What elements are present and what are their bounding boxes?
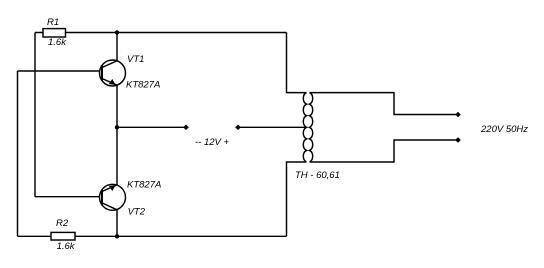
svg-text:R1: R1 — [47, 17, 59, 28]
wire: 12V feed from right terminal to transformer center tap — [238, 126, 307, 128]
wire: primary bottom lead (corner up from bottom rail) — [287, 162, 307, 236]
svg-text:VT2: VT2 — [128, 207, 146, 218]
terminal (diamond) 12V right — [235, 125, 241, 131]
transformer TH secondary winding (right) — [309, 93, 312, 162]
junction dot at bottom rail — [115, 234, 119, 238]
terminal (diamond) 220V bottom — [455, 137, 461, 143]
svg-text:VT1: VT1 — [127, 54, 144, 65]
resistor R2 — [51, 218, 76, 252]
svg-text:1.6k: 1.6k — [57, 241, 76, 252]
resistor R1 — [43, 17, 67, 48]
wire: left vertical from VT1 base down to bottom rail — [17, 71, 19, 236]
transistor VT2 (KT827A, NPN) — [100, 180, 162, 218]
svg-text:R2: R2 — [56, 218, 69, 229]
wire: top rail (+12V) from R1 to transformer corner — [35, 32, 287, 34]
junction dot at R1/collector top rail — [115, 30, 119, 34]
wire: secondary top lead to output — [310, 93, 459, 115]
terminal (diamond) 220V top — [455, 112, 461, 118]
wire: VT2 base wire — [35, 196, 102, 198]
svg-text:TH - 60,61: TH - 60,61 — [295, 170, 340, 181]
transformer TH primary winding (left, with center tap) — [303, 93, 306, 162]
svg-text:220V 50Hz: 220V 50Hz — [480, 124, 528, 135]
svg-text:1.6k: 1.6k — [48, 37, 67, 48]
terminal (diamond) 12V left — [183, 125, 189, 131]
wire: primary top lead (corner down from top rail) — [287, 33, 307, 93]
wire: collector-emitter vertical through VT1 and VT2 — [116, 33, 118, 237]
svg-text:KT827A: KT827A — [126, 80, 160, 91]
wire: vertical from R1 left lead down to VT2 base — [34, 33, 36, 197]
svg-text:-- 12V +: -- 12V + — [195, 137, 230, 148]
wire: VT1 base wire — [18, 70, 103, 72]
wire: bottom rail from left vertical to transformer corner — [18, 235, 287, 237]
wire: 12V tap from emitter junction to left terminal — [117, 126, 186, 128]
wire: secondary bottom lead to output — [310, 140, 459, 162]
transistor VT1 (KT827A, NPN) — [100, 54, 161, 91]
junction dot at emitter/12V tap — [115, 125, 119, 129]
svg-text:KT827A: KT827A — [127, 180, 161, 191]
